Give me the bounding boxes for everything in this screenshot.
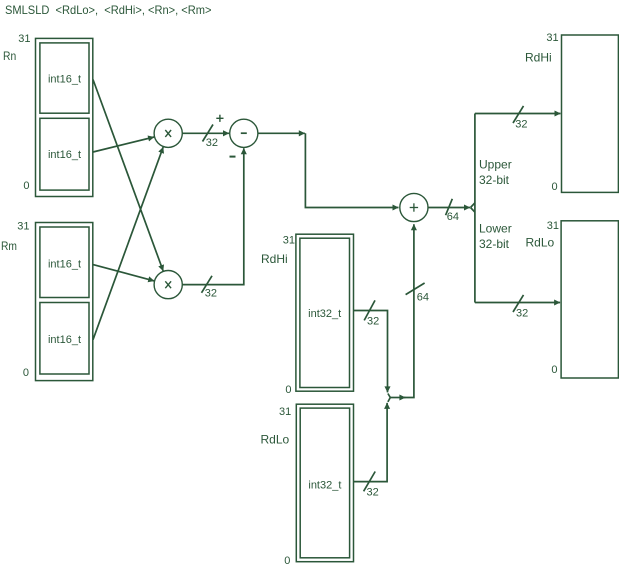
wire adder to fork	[428, 207, 470, 209]
tick 32 on X1 wire	[203, 125, 214, 142]
wire fork to RdHi output	[475, 113, 561, 115]
fork chevron	[471, 203, 475, 208]
svg-text:31: 31	[279, 406, 291, 418]
svg-text:Rm: Rm	[1, 239, 17, 253]
multiplier X2	[154, 271, 182, 299]
tick 64 on adder output	[446, 199, 453, 215]
register Rn bottom half cell int16_t	[40, 118, 89, 190]
wire X2 to subtractor bottom	[182, 148, 244, 284]
tick 32 on RdLo wire	[364, 472, 376, 492]
svg-text:int16_t: int16_t	[48, 334, 81, 346]
junction chevron	[388, 394, 390, 398]
svg-text:32: 32	[516, 308, 528, 320]
svg-text:0: 0	[23, 180, 29, 192]
register Rm outer box	[36, 223, 93, 381]
svg-text:32-bit: 32-bit	[479, 237, 510, 251]
tick 32 on lower branch	[513, 295, 524, 312]
svg-text:32: 32	[367, 316, 379, 328]
tick 32 on upper branch	[513, 106, 524, 123]
svg-text:int32_t: int32_t	[308, 479, 341, 491]
wire middle RdHi to junction (down)	[354, 311, 388, 393]
register Rm top half cell int16_t	[40, 227, 89, 298]
svg-text:int16_t: int16_t	[48, 259, 81, 271]
svg-text:0: 0	[285, 384, 291, 396]
svg-text:RdLo: RdLo	[526, 236, 555, 250]
middle register RdHi outer box	[296, 234, 354, 391]
svg-text:0: 0	[284, 555, 290, 567]
svg-text:32: 32	[515, 119, 527, 131]
tick 32 on RdHi wire	[364, 300, 375, 320]
adder circle	[400, 193, 428, 221]
svg-text:RdHi: RdHi	[525, 51, 552, 65]
middle register RdHi inner box int32_t	[300, 238, 350, 387]
svg-text:int16_t: int16_t	[48, 74, 81, 86]
wire subtractor to corner	[258, 132, 305, 134]
minus sign at subtractor bottom input	[230, 156, 236, 158]
svg-text:64: 64	[447, 211, 459, 223]
wire Rm bottom half to multiplier X1	[93, 147, 163, 340]
multiplier X1	[154, 119, 182, 147]
wire junction to adder (64-bit)	[390, 397, 405, 399]
svg-text:31: 31	[17, 221, 29, 233]
svg-text:31: 31	[547, 220, 559, 232]
wire Rm top half to multiplier X2	[93, 265, 154, 281]
output register RdLo box	[561, 221, 618, 378]
svg-text:SMLSLD <RdLo>, <RdHi>, <Rn>,: SMLSLD <RdLo>, <RdHi>, <Rn>, <Rm>	[5, 3, 212, 17]
svg-text:31: 31	[546, 32, 558, 44]
wire middle RdLo to junction (up)	[354, 403, 388, 482]
svg-text:RdLo: RdLo	[261, 433, 290, 447]
tick 32 on X2 wire	[202, 276, 213, 293]
svg-text:31: 31	[283, 234, 295, 246]
svg-text:32: 32	[205, 288, 217, 300]
middle register RdLo outer box	[296, 404, 353, 562]
svg-text:Lower: Lower	[479, 222, 512, 236]
plus sign at subtractor input	[216, 117, 223, 119]
svg-text:32: 32	[206, 137, 218, 149]
subtractor circle	[230, 119, 258, 147]
svg-text:0: 0	[551, 364, 557, 376]
wire corner down and right to adder	[305, 133, 398, 207]
wire X1 to subtractor	[182, 132, 229, 134]
svg-text:int16_t: int16_t	[48, 149, 81, 161]
register Rn top half cell int16_t	[40, 43, 89, 113]
svg-text:32-bit: 32-bit	[479, 173, 510, 187]
svg-text:64: 64	[417, 292, 429, 304]
register Rm bottom half cell int16_t	[40, 303, 89, 375]
svg-text:0: 0	[551, 181, 557, 193]
wire Rn bottom half to multiplier X1	[93, 137, 154, 152]
fork vertical wire	[474, 114, 476, 303]
tick 64 on vertical wire	[406, 283, 425, 295]
svg-text:int32_t: int32_t	[308, 308, 341, 320]
svg-text:Rn: Rn	[3, 49, 16, 63]
wire Rn top half to multiplier X2	[93, 80, 163, 272]
output register RdHi box	[562, 35, 619, 192]
svg-text:Upper: Upper	[479, 158, 512, 172]
svg-text:RdHi: RdHi	[261, 252, 288, 266]
svg-text:31: 31	[18, 33, 30, 45]
svg-text:0: 0	[23, 367, 29, 379]
svg-text:32: 32	[367, 487, 379, 499]
register Rn outer box	[36, 38, 93, 196]
middle register RdLo inner box int32_t	[300, 408, 349, 558]
wire fork to RdLo output	[475, 302, 560, 304]
